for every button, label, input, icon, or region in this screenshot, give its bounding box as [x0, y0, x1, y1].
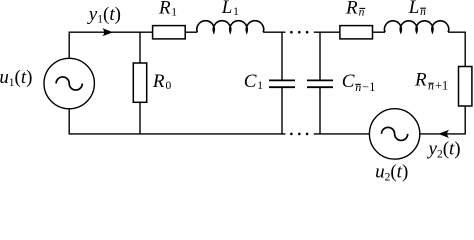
voltage source u1 circle	[44, 58, 94, 108]
resistor Rn̄	[340, 26, 373, 39]
wire branch C1 bottom	[281, 87, 283, 134]
sine symbol u1	[56, 77, 82, 90]
wire Rn to Ln	[373, 31, 386, 33]
svg-text:u1(t): u1(t)	[0, 67, 32, 89]
wire L1 to gap	[263, 31, 285, 33]
resistor R0	[133, 63, 146, 102]
capacitor Cn̄-1	[307, 79, 333, 81]
wire R1 to L1	[185, 31, 197, 33]
capacitor C1	[269, 79, 295, 81]
wire branch Cn-1 top	[319, 32, 321, 80]
inductor Ln̄	[384, 21, 448, 32]
wire branch Cn-1 bottom	[319, 87, 321, 134]
wire top-left from source u1 to R1	[69, 32, 152, 58]
resistor R1	[153, 26, 186, 39]
resistor Rn̄+1	[459, 67, 472, 107]
svg-text:y2(t): y2(t)	[427, 139, 461, 161]
wire gap to Rn	[314, 31, 340, 33]
wire branch R0 bottom	[139, 102, 141, 134]
wire Ln to right corner down	[448, 32, 465, 66]
node dots top ellipsis	[290, 31, 293, 34]
inductor L1	[197, 21, 264, 32]
svg-text:y1(t): y1(t)	[87, 4, 121, 26]
arrow y2 direction pointing left	[438, 130, 449, 138]
wire u2 left along bottom to gap	[314, 133, 370, 135]
node dots bottom ellipsis	[290, 133, 293, 136]
wire bottom from gap to u1	[69, 109, 285, 134]
wire branch C1 top	[281, 32, 283, 80]
svg-text:u2(t): u2(t)	[375, 162, 408, 184]
voltage source u2 circle	[369, 109, 419, 159]
wire Rn+1 down to corner and left to arrow	[420, 106, 465, 134]
sine symbol u2	[382, 127, 408, 140]
arrow y1 direction on top wire	[102, 28, 113, 36]
wire branch R0 top	[139, 32, 141, 63]
